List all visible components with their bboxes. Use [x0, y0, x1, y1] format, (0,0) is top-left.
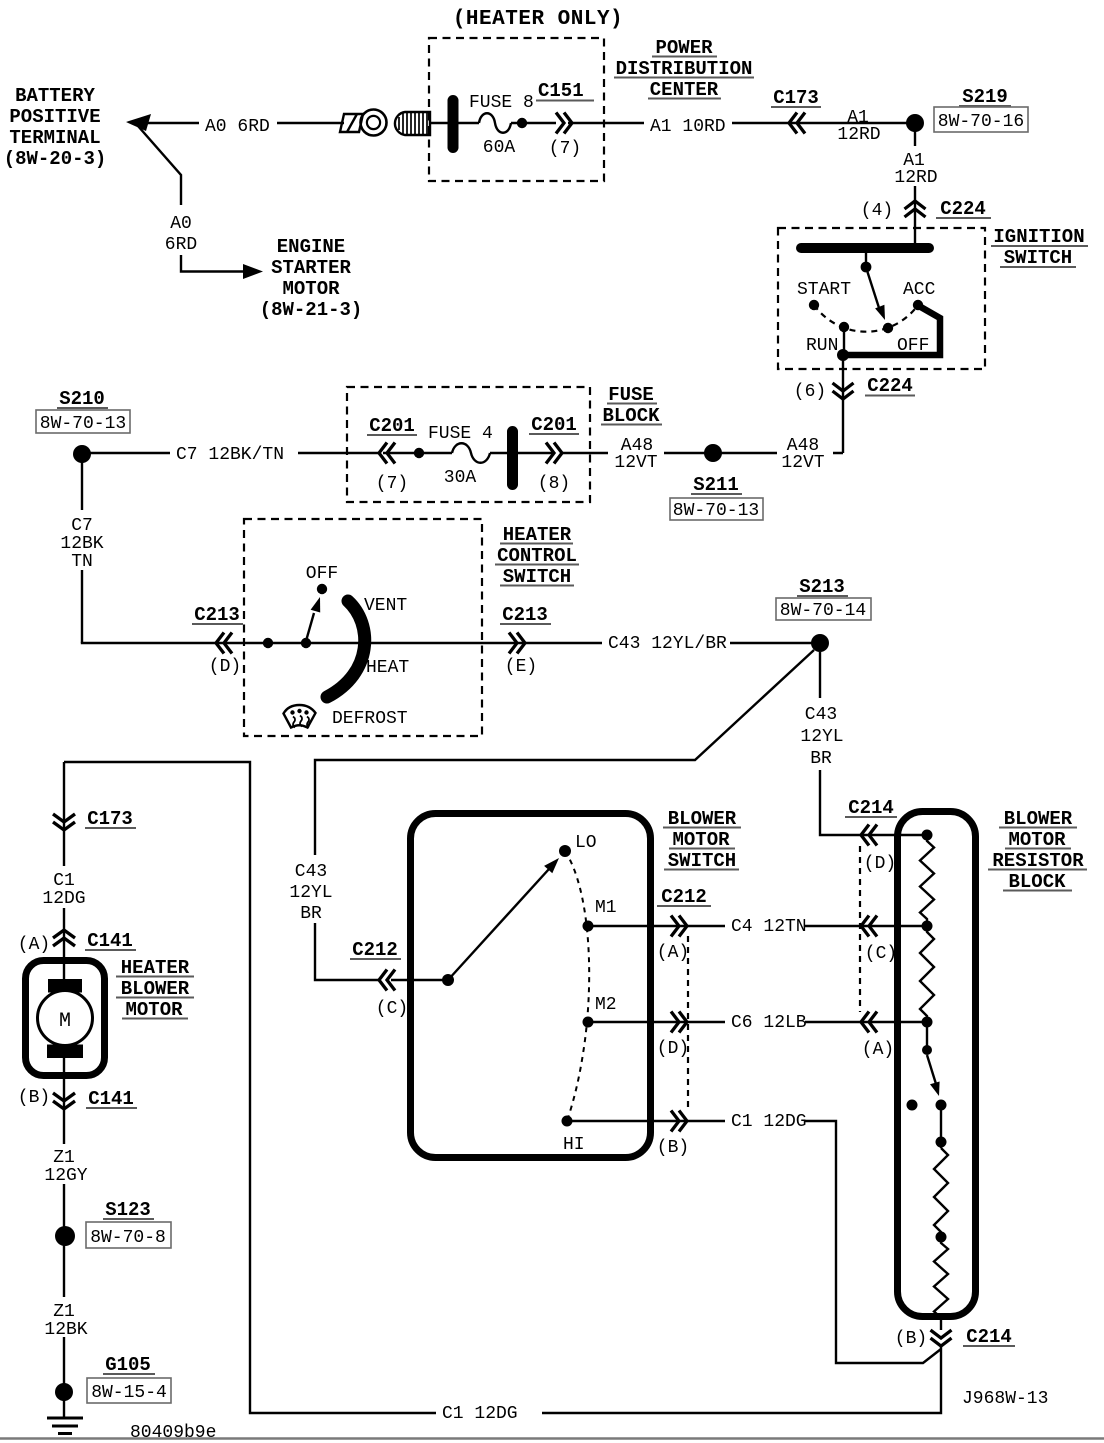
svg-text:8W-70-16: 8W-70-16	[938, 112, 1024, 132]
svg-text:12BK: 12BK	[60, 534, 103, 554]
reference box 8W-70-13	[36, 410, 130, 433]
ignition wiper pivot	[865, 252, 867, 262]
label C43 12YL BR vertical right	[796, 698, 846, 770]
connector C212 cavity A chevrons	[671, 916, 687, 937]
wire heater control row	[82, 642, 818, 643]
svg-text:ACC: ACC	[903, 280, 936, 300]
connector C201 cavity 7 chevrons	[379, 443, 395, 464]
wire C214 D into resistor block	[859, 834, 927, 836]
svg-text:C212: C212	[661, 886, 707, 908]
svg-text:DEFROST: DEFROST	[332, 709, 408, 729]
splice S123	[55, 1226, 75, 1246]
resistor element 3	[934, 1148, 948, 1237]
svg-text:A1 10RD: A1 10RD	[650, 117, 726, 137]
defrost icon	[284, 705, 316, 728]
connector C213 cavity D chevrons	[216, 633, 232, 654]
heater wiper arrow to OFF	[306, 613, 314, 641]
connector C214 cavity D chevrons	[861, 825, 877, 846]
svg-text:S219: S219	[962, 86, 1008, 108]
node ENGINE STARTER MOTOR label	[260, 236, 363, 321]
connector C214 cavity C chevrons	[861, 916, 877, 937]
heater control switch dashed box	[244, 519, 482, 736]
svg-text:M1: M1	[595, 898, 617, 918]
svg-text:M: M	[59, 1010, 71, 1033]
blower switch wiper arrow to LO	[448, 869, 549, 980]
svg-text:S213: S213	[799, 576, 845, 598]
svg-text:(B): (B)	[657, 1138, 689, 1158]
svg-text:C173: C173	[87, 808, 133, 830]
contact ACC	[913, 300, 923, 310]
wire into blower switch	[391, 979, 448, 981]
junction dot before fuse 4	[414, 448, 424, 458]
reference box 8W-70-8	[86, 1222, 171, 1248]
wire C214 B down to bottom run	[64, 762, 941, 1413]
connector C141 cavity A chevrons	[53, 930, 75, 946]
svg-text:A0 6RD: A0 6RD	[205, 117, 270, 137]
svg-text:VENT: VENT	[364, 596, 407, 616]
svg-text:(7): (7)	[549, 139, 581, 159]
splice S210	[73, 445, 91, 463]
svg-text:(HEATER ONLY): (HEATER ONLY)	[453, 8, 623, 31]
motor brush top	[48, 979, 82, 993]
wire branch diagonal to starter feed	[138, 126, 244, 272]
svg-text:ENGINE: ENGINE	[277, 236, 345, 258]
svg-text:C7: C7	[71, 516, 93, 536]
blower motor resistor block box	[898, 812, 976, 1317]
junction dot above resistor 3	[936, 1137, 947, 1148]
connector C151 cavity 7 chevrons	[556, 113, 572, 134]
blower switch wiper junction dot	[442, 974, 454, 986]
svg-text:(8W-20-3): (8W-20-3)	[4, 148, 107, 170]
svg-text:(A): (A)	[657, 943, 689, 963]
label C1 12DG bottom	[436, 1400, 542, 1424]
svg-text:TN: TN	[71, 552, 93, 572]
wire HI row to corner	[567, 1121, 941, 1363]
svg-text:12GY: 12GY	[44, 1166, 87, 1186]
connector C173 left chevrons	[53, 814, 75, 830]
ignition switch dashed box	[778, 228, 985, 369]
contact LO dot	[559, 845, 571, 857]
svg-text:12DG: 12DG	[42, 889, 85, 909]
svg-text:C4 12TN: C4 12TN	[731, 917, 807, 937]
label A1 12RD vertical	[889, 146, 941, 186]
connector C173 chevrons	[789, 113, 805, 134]
connector C201 cavity 8 chevrons	[546, 443, 562, 464]
svg-text:C173: C173	[773, 87, 819, 109]
svg-text:(B): (B)	[895, 1329, 927, 1349]
svg-text:80409b9e: 80409b9e	[130, 1423, 216, 1443]
svg-text:(8): (8)	[538, 474, 570, 494]
label A0 6RD on branch wire	[158, 205, 204, 255]
contact OFF dot	[317, 584, 327, 594]
contact HI dot	[562, 1116, 573, 1127]
wire M2 row	[588, 1021, 924, 1023]
ignition wiper arm arrow	[868, 272, 881, 311]
svg-text:HEAT: HEAT	[366, 658, 409, 678]
svg-text:(A): (A)	[862, 1040, 894, 1060]
svg-text:FUSE 8: FUSE 8	[469, 93, 534, 113]
arrowhead to battery positive terminal	[126, 114, 151, 131]
label Z1 12BK vertical	[40, 1297, 88, 1337]
svg-text:30A: 30A	[444, 468, 477, 488]
svg-text:(A): (A)	[18, 935, 50, 955]
svg-text:C214: C214	[966, 1326, 1012, 1348]
svg-text:C212: C212	[352, 939, 398, 961]
wire M1 row	[588, 925, 924, 927]
contact M2 dot	[583, 1017, 594, 1028]
svg-text:OFF: OFF	[306, 564, 338, 584]
connector group dashed line C214	[859, 846, 861, 1012]
connector C224 cavity 4 chevrons	[905, 201, 926, 217]
fuse block dashed box	[347, 387, 590, 502]
svg-text:(C): (C)	[376, 999, 408, 1019]
wire S213 down to C214 D	[820, 652, 859, 835]
motor armature circle	[38, 991, 93, 1046]
svg-text:C6 12LB: C6 12LB	[731, 1013, 807, 1033]
svg-text:(7): (7)	[376, 474, 408, 494]
svg-text:C141: C141	[87, 930, 133, 952]
junction dot A tap	[922, 1017, 933, 1028]
svg-text:G105: G105	[105, 1354, 151, 1376]
wiper target contact dot	[936, 1100, 947, 1111]
label C1 12DG	[725, 1108, 805, 1132]
svg-text:C213: C213	[194, 604, 240, 626]
PDC bus bar	[448, 95, 459, 153]
bottom page divider	[0, 1437, 1104, 1439]
connector C214 cavity B chevrons	[931, 1330, 952, 1346]
dashed selector arc LO-M1-M2-HI	[565, 851, 589, 1121]
wire RUN contact down	[843, 327, 845, 355]
connector C212 cavity D chevrons	[671, 1012, 687, 1033]
fuse block bus bar	[507, 426, 518, 490]
svg-text:C224: C224	[867, 375, 913, 397]
label C1 12DG vertical	[40, 866, 88, 908]
heater blower motor box	[26, 961, 105, 1076]
svg-text:(D): (D)	[209, 657, 241, 677]
label C6 12LB	[725, 1009, 805, 1033]
connector C224 cavity 6 chevrons	[833, 383, 854, 399]
junction dot wiper base	[301, 638, 311, 648]
svg-text:8W-15-4: 8W-15-4	[91, 1383, 167, 1403]
svg-text:8W-70-13: 8W-70-13	[40, 414, 126, 434]
fuse 4 element	[452, 443, 490, 463]
reference box 8W-70-14	[776, 598, 871, 620]
wire out of ignition switch	[842, 355, 844, 453]
resistor input junction dot	[922, 830, 933, 841]
svg-text:8W-70-13: 8W-70-13	[673, 501, 759, 521]
svg-text:BR: BR	[300, 904, 322, 924]
svg-text:C213: C213	[502, 604, 548, 626]
node BATTERY POSITIVE TERMINAL label	[4, 85, 107, 170]
svg-text:C141: C141	[88, 1088, 134, 1110]
reference box 8W-70-13	[670, 498, 763, 520]
connector C212 cavity C chevrons	[379, 970, 395, 991]
svg-text:J968W-13: J968W-13	[962, 1389, 1048, 1409]
svg-text:12VT: 12VT	[614, 453, 657, 473]
svg-text:(6): (6)	[794, 382, 826, 402]
label A1 10RD	[644, 110, 732, 136]
wire bullet to bus bar	[430, 122, 450, 124]
svg-text:A0: A0	[170, 214, 192, 234]
splice S219	[906, 114, 924, 132]
wire fuse block to ignition column	[560, 452, 843, 454]
junction dot after fuse	[511, 122, 556, 124]
dashed contact arc	[814, 305, 918, 332]
eyelet terminal parallelogram	[340, 114, 363, 132]
power distribution center dashed box	[429, 38, 604, 181]
wire wiper contact down	[940, 1105, 942, 1148]
svg-text:C151: C151	[538, 80, 584, 102]
connector C212 cavity B chevrons	[671, 1111, 687, 1132]
svg-text:(B): (B)	[18, 1088, 50, 1108]
label A48 12VT left	[608, 436, 664, 469]
blower motor switch box	[411, 814, 651, 1158]
isolated contact dot	[907, 1100, 918, 1111]
svg-text:60A: 60A	[483, 138, 516, 158]
svg-text:12BK: 12BK	[44, 1320, 87, 1340]
label A0 6RD on battery wire	[199, 111, 277, 136]
FUSE BLOCK label	[601, 384, 662, 427]
thick link ACC to RUN output	[843, 306, 940, 355]
resistor wiper pivot dot	[922, 1045, 932, 1055]
connector group dashed line C212	[687, 936, 689, 1112]
svg-text:C43: C43	[295, 862, 327, 882]
svg-text:MOTOR: MOTOR	[282, 278, 340, 300]
svg-text:(4): (4)	[861, 201, 893, 221]
fuse 8 element	[458, 122, 479, 124]
svg-text:BATTERY: BATTERY	[15, 85, 95, 107]
svg-text:8W-70-8: 8W-70-8	[90, 1228, 166, 1248]
contact RUN	[839, 322, 849, 332]
resistor element 1	[920, 835, 934, 926]
svg-text:S211: S211	[693, 474, 739, 496]
svg-text:6RD: 6RD	[165, 235, 197, 255]
crimp splice bullet with hatching	[395, 112, 430, 135]
svg-text:(E): (E)	[505, 657, 537, 677]
wire A tap to wiper pivot	[926, 1022, 928, 1046]
svg-text:BR: BR	[810, 749, 832, 769]
svg-text:(C): (C)	[865, 944, 897, 964]
svg-text:STARTER: STARTER	[271, 257, 351, 279]
contact M1 dot	[583, 921, 594, 932]
svg-text:12YL: 12YL	[800, 727, 843, 747]
svg-text:12YL: 12YL	[289, 883, 332, 903]
label C7 12BK TN vertical	[57, 510, 107, 570]
svg-text:12VT: 12VT	[781, 453, 824, 473]
svg-text:START: START	[797, 280, 851, 300]
svg-text:C43: C43	[805, 705, 837, 725]
svg-text:8W-70-14: 8W-70-14	[780, 601, 866, 621]
svg-text:C1: C1	[53, 871, 75, 891]
contact START	[809, 300, 819, 310]
svg-text:LO: LO	[575, 833, 597, 853]
svg-text:S123: S123	[105, 1199, 151, 1221]
label C43 12YL BR vertical left	[288, 855, 336, 923]
svg-text:(D): (D)	[657, 1039, 689, 1059]
label C4 12TN	[725, 913, 805, 937]
svg-text:C201: C201	[531, 414, 577, 436]
label C43 12YL/BR	[602, 630, 730, 653]
wire S210 to fuse block	[88, 452, 379, 454]
reference box 8W-15-4	[87, 1378, 171, 1403]
svg-text:IGNITION: IGNITION	[993, 226, 1084, 248]
splice S211	[704, 444, 722, 462]
connector C213 cavity E chevrons	[509, 633, 525, 654]
eyelet terminal ring	[361, 110, 387, 136]
wire S213 diagonal to blower switch feed	[315, 650, 814, 980]
junction dot RUN output	[837, 349, 849, 361]
svg-text:C1 12DG: C1 12DG	[442, 1404, 518, 1424]
ignition switch input bar	[796, 243, 934, 253]
svg-text:C224: C224	[940, 198, 986, 220]
svg-text:POSITIVE: POSITIVE	[9, 106, 100, 128]
svg-text:TERMINAL: TERMINAL	[9, 127, 100, 149]
arrowhead to engine starter motor	[243, 264, 263, 279]
HEATER BLOWER MOTOR label	[116, 957, 194, 1021]
svg-text:C201: C201	[369, 415, 415, 437]
junction dot C tap	[922, 921, 933, 932]
contact wiper position	[883, 323, 893, 333]
label C7 12BK/TN	[170, 441, 298, 464]
wire left column down	[63, 762, 65, 1418]
heater selector thick arc	[327, 601, 365, 697]
splice S213	[811, 634, 829, 652]
wire S210 down to heater control switch	[81, 461, 83, 643]
svg-text:12RD: 12RD	[894, 168, 937, 188]
motor brush bottom	[47, 1045, 83, 1059]
svg-text:C43 12YL/BR: C43 12YL/BR	[608, 634, 727, 654]
wire C151 to C173	[568, 122, 915, 124]
svg-text:FUSE 4: FUSE 4	[428, 424, 493, 444]
wire S219 down to ignition switch	[914, 130, 916, 243]
reference box 8W-70-16	[934, 107, 1028, 132]
resistor element 4	[934, 1237, 948, 1330]
ground G105 symbol	[47, 1418, 83, 1434]
wire through fuse block	[383, 452, 552, 454]
connector C141 cavity B chevrons	[53, 1093, 75, 1109]
junction dot between resistor 3 and 4	[936, 1232, 947, 1243]
svg-text:Z1: Z1	[53, 1302, 75, 1322]
svg-text:HI: HI	[563, 1135, 585, 1155]
BLOWER MOTOR SWITCH label	[663, 808, 741, 872]
svg-text:SWITCH: SWITCH	[1004, 247, 1072, 269]
svg-text:12RD: 12RD	[837, 125, 880, 145]
label A48 12VT right	[777, 436, 833, 469]
svg-text:C7 12BK/TN: C7 12BK/TN	[176, 445, 284, 465]
svg-text:S210: S210	[59, 388, 105, 410]
IGNITION SWITCH label	[991, 226, 1088, 269]
POWER DISTRIBUTION CENTER label	[614, 37, 754, 101]
svg-text:(8W-21-3): (8W-21-3)	[260, 299, 363, 321]
connector C214 cavity A chevrons	[861, 1012, 877, 1033]
svg-text:C1 12DG: C1 12DG	[731, 1112, 807, 1132]
svg-text:(D): (D)	[864, 854, 896, 874]
HEATER CONTROL SWITCH label	[495, 524, 579, 588]
junction dot heater input	[263, 638, 273, 648]
svg-text:Z1: Z1	[53, 1148, 75, 1168]
svg-text:RUN: RUN	[806, 336, 838, 356]
svg-text:C214: C214	[848, 797, 894, 819]
wire A0 6RD horizontal	[143, 122, 344, 124]
label Z1 12GY vertical	[40, 1144, 88, 1184]
resistor wiper arrow	[927, 1055, 936, 1084]
resistor element 2	[920, 926, 934, 1022]
BLOWER MOTOR RESISTOR BLOCK label	[988, 808, 1087, 893]
splice G105	[55, 1383, 73, 1401]
svg-text:M2: M2	[595, 995, 617, 1015]
